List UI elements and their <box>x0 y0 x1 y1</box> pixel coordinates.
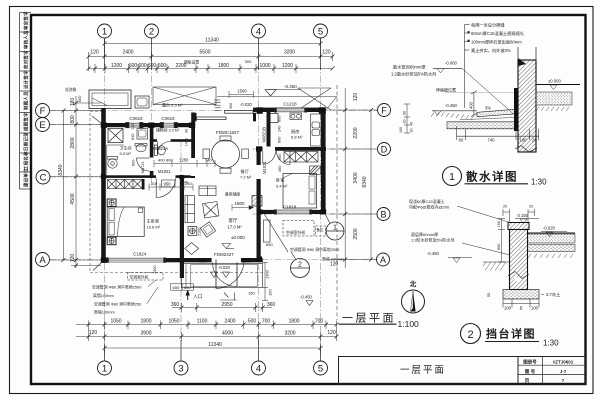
dim 1500 <box>229 91 254 98</box>
bathroom basin <box>135 144 147 152</box>
window C0615 a <box>126 123 143 128</box>
svg-text:55: 55 <box>487 293 491 297</box>
svg-text:20: 20 <box>410 129 414 133</box>
svg-text:5: 5 <box>318 27 323 38</box>
svg-text:C1824: C1824 <box>133 252 147 257</box>
svg-text:5.5 M³: 5.5 M³ <box>120 151 132 156</box>
svg-text:离墙100mm: 离墙100mm <box>93 293 114 298</box>
svg-text:120: 120 <box>131 123 135 129</box>
svg-text:3200: 3200 <box>284 331 295 337</box>
svg-text:审定签字: 审定签字 <box>23 11 30 30</box>
svg-text:F: F <box>381 105 387 115</box>
d1 bottom dims <box>457 126 539 140</box>
svg-text:设计签字: 设计签字 <box>23 70 30 89</box>
svg-text:1: 1 <box>449 171 455 183</box>
svg-text:卫生间: 卫生间 <box>120 145 132 151</box>
d1 apron layers <box>447 109 516 129</box>
wardrobe partition <box>142 179 145 190</box>
svg-text:每隔一米设分隔缝: 每隔一米设分隔缝 <box>471 21 505 28</box>
svg-text:3:7灰土: 3:7灰土 <box>546 291 560 298</box>
svg-text:650: 650 <box>266 242 273 247</box>
entry arrow <box>186 290 203 301</box>
d2 level -0.020 <box>541 226 567 237</box>
svg-text:M0821B: M0821B <box>262 127 267 143</box>
svg-text:±0.000: ±0.000 <box>548 79 561 84</box>
svg-text:40: 40 <box>410 122 414 126</box>
svg-text:20: 20 <box>532 138 537 143</box>
svg-text:600: 600 <box>138 63 147 69</box>
svg-text:客厅: 客厅 <box>229 217 238 224</box>
svg-text:图 号: 图 号 <box>525 368 536 375</box>
walls <box>101 108 326 278</box>
svg-text:310: 310 <box>151 181 158 186</box>
svg-text:600: 600 <box>148 63 157 69</box>
dim line row2 top <box>89 56 333 58</box>
apron edge line kitchen porch <box>217 97 337 111</box>
svg-text:空调管洞 Φ80 洞中离地250: 空调管洞 Φ80 洞中离地250 <box>94 301 142 306</box>
overhang corner diagonals <box>92 116 104 271</box>
d2 level 0.150 <box>515 213 539 224</box>
d1 small left dims <box>404 104 410 133</box>
svg-text:0.150: 0.150 <box>518 213 529 218</box>
axis line C horizontal <box>49 176 186 178</box>
wall D-axis <box>257 147 327 151</box>
svg-text:M0721: M0721 <box>141 161 145 173</box>
axis line 1 vertical <box>104 38 106 361</box>
svg-text:4000: 4000 <box>222 331 233 337</box>
svg-text:100mm厚碎石宽出面60mm: 100mm厚碎石宽出面60mm <box>471 38 522 45</box>
ref bubble 1 <box>325 213 345 241</box>
svg-text:5500: 5500 <box>199 50 210 56</box>
svg-text:一层平面: 一层平面 <box>342 312 396 325</box>
svg-text:空调管洞 Φ80 洞中离地2500: 空调管洞 Φ80 洞中离地2500 <box>290 247 340 252</box>
d1 note texts <box>468 21 524 54</box>
svg-text:1800: 1800 <box>140 319 151 325</box>
svg-text:-0.450: -0.450 <box>284 84 297 89</box>
bedroom2 closet <box>284 152 318 163</box>
svg-text:5: 5 <box>318 364 323 375</box>
dim tick slashes <box>61 42 373 351</box>
svg-text:2100: 2100 <box>198 228 202 236</box>
axis bubble B right <box>377 208 390 221</box>
d2 right slab <box>528 233 576 258</box>
svg-text:60: 60 <box>459 138 464 143</box>
AC box left <box>128 273 164 281</box>
ref bubble 2 <box>291 252 310 278</box>
hall fixture <box>155 145 166 156</box>
right dimension chains <box>330 85 378 320</box>
svg-text:现浇60厚C15混凝土: 现浇60厚C15混凝土 <box>409 198 445 204</box>
svg-text:-0.020: -0.020 <box>218 265 231 270</box>
svg-text:储物间 3.3 M³: 储物间 3.3 M³ <box>156 128 180 133</box>
svg-text:950: 950 <box>278 154 282 160</box>
d1 bottom dim texts <box>459 138 538 143</box>
pier hatch on axis4 wall <box>252 196 262 207</box>
svg-text:-0.020: -0.020 <box>240 102 253 107</box>
entry door arc <box>213 262 238 286</box>
svg-text:3%: 3% <box>485 106 491 111</box>
svg-text:卧室: 卧室 <box>276 177 284 184</box>
svg-text:-0.450: -0.450 <box>427 251 440 256</box>
svg-text:离墙 100mm: 离墙 100mm <box>322 257 344 262</box>
svg-text:#ZTJ0601: #ZTJ0601 <box>553 360 574 365</box>
kitchen sink counter <box>311 114 322 146</box>
bathroom shower <box>108 129 123 143</box>
svg-text:FDMC1827: FDMC1827 <box>216 130 240 135</box>
axis bubble 3 bottom <box>174 361 188 375</box>
bedroom door M1021 arc <box>156 178 175 197</box>
svg-text:挡台详图: 挡台详图 <box>486 327 536 341</box>
axis line 2 vertical <box>151 38 153 185</box>
svg-text:1100: 1100 <box>197 319 208 325</box>
terrace steps <box>214 100 221 110</box>
plan title <box>339 312 420 330</box>
svg-text:500: 500 <box>248 319 257 325</box>
wall north F-axis <box>253 108 325 112</box>
svg-text:300: 300 <box>245 59 252 64</box>
svg-text:150: 150 <box>268 289 273 296</box>
entry level triangles <box>211 272 218 278</box>
svg-text:2950: 2950 <box>221 302 232 308</box>
hall dim row1 <box>154 160 215 167</box>
svg-text:11340: 11340 <box>205 38 219 44</box>
svg-text:8340: 8340 <box>58 164 64 175</box>
svg-text:1800: 1800 <box>288 319 299 325</box>
axis line A horizontal <box>49 259 378 261</box>
d2 mid notes <box>411 231 454 243</box>
svg-text:1280: 1280 <box>179 158 189 163</box>
svg-text:800: 800 <box>70 115 76 124</box>
svg-text:搁板设置: 搁板设置 <box>184 60 199 65</box>
svg-text:素土夯实，向外坡3%: 素土夯实，向外坡3% <box>471 47 511 54</box>
right dim line outer 8340 <box>370 110 372 260</box>
svg-text:4500: 4500 <box>70 193 76 204</box>
bathroom toilet <box>107 145 124 174</box>
svg-text:100: 100 <box>504 306 512 311</box>
svg-text:1800: 1800 <box>218 63 229 69</box>
svg-text:4: 4 <box>256 364 261 375</box>
svg-text:M1021: M1021 <box>158 169 171 174</box>
wall south A-axis <box>101 258 212 262</box>
wall living south <box>241 258 263 262</box>
level -0.450 bottom <box>306 301 313 306</box>
terrace flower bed <box>89 90 131 109</box>
svg-text:M1021: M1021 <box>262 161 267 174</box>
d2 wall break <box>512 273 522 280</box>
coffee table X <box>203 202 219 218</box>
svg-text:300: 300 <box>229 103 233 109</box>
svg-text:1050: 1050 <box>110 319 121 325</box>
svg-text:7.2 M³: 7.2 M³ <box>240 175 252 180</box>
column blobs <box>101 107 326 263</box>
svg-text:C0615: C0615 <box>129 116 143 121</box>
svg-text:空调室外机: 空调室外机 <box>286 230 306 235</box>
svg-text:1: 1 <box>333 225 337 232</box>
wall axis4 vertical <box>257 151 261 262</box>
d1 floor slab right <box>536 85 580 112</box>
kitchen stove <box>290 113 302 120</box>
entry diamond <box>185 243 199 255</box>
svg-text:图册号: 图册号 <box>523 359 537 366</box>
svg-text:-0.020: -0.020 <box>543 226 556 231</box>
svg-text:B: B <box>520 306 523 311</box>
bedroom2 hatched cabinet <box>310 166 321 175</box>
svg-text:1300: 1300 <box>265 269 270 279</box>
d1 wall hatched <box>514 47 536 152</box>
svg-text:3400: 3400 <box>353 172 359 183</box>
svg-text:北: 北 <box>410 279 417 288</box>
d1 label <box>443 167 548 187</box>
bedroom2 door arc <box>277 151 291 165</box>
washer box <box>135 96 149 108</box>
d2 label <box>461 324 560 348</box>
svg-text:400: 400 <box>158 158 165 163</box>
svg-text:100: 100 <box>399 127 403 133</box>
master bed nightstand top <box>107 199 116 207</box>
axis bubble 5 top <box>314 24 328 38</box>
window C1818 <box>275 210 312 214</box>
svg-text:-0.450: -0.450 <box>300 295 313 300</box>
svg-text:2200: 2200 <box>353 127 359 138</box>
svg-text:5.8 M³: 5.8 M³ <box>291 135 303 140</box>
d2 bottom dims <box>503 300 539 308</box>
dim line total 11340 top <box>105 43 321 45</box>
svg-text:1: 1 <box>102 27 107 38</box>
wall axis2 vertical <box>150 123 154 178</box>
title bar texts <box>400 359 574 385</box>
svg-text:F: F <box>40 106 46 117</box>
wall kitchen partition <box>267 108 271 147</box>
svg-text:空调室外机: 空调室外机 <box>130 274 149 279</box>
svg-text:11340: 11340 <box>208 342 222 348</box>
living sofa left <box>185 196 195 223</box>
svg-text:650: 650 <box>173 285 180 290</box>
svg-text:30: 30 <box>185 129 189 133</box>
svg-text:E: E <box>39 120 45 131</box>
door gaps (white) <box>149 139 275 263</box>
svg-text:1420: 1420 <box>185 138 189 146</box>
axis bubble F right <box>378 104 391 117</box>
axis line F horizontal <box>49 110 378 112</box>
d2 footing <box>487 290 560 300</box>
svg-text:15.6 M³: 15.6 M³ <box>147 225 161 230</box>
bottom title bar <box>339 357 586 385</box>
axis bubble F left <box>36 104 50 118</box>
svg-text:60: 60 <box>403 111 407 115</box>
wall axis3 vertical <box>191 113 195 179</box>
svg-text:100: 100 <box>531 306 539 311</box>
axis line 5 vertical <box>320 38 322 361</box>
svg-text:C1818: C1818 <box>283 205 297 210</box>
d1 level 0.000 <box>548 79 561 90</box>
d1 level -0.060 <box>433 61 462 73</box>
svg-text:2: 2 <box>467 329 473 341</box>
bottom dimension chains <box>76 303 337 353</box>
bathroom door arc <box>137 158 150 171</box>
door FDM2427 with arc <box>216 260 244 289</box>
d1 note leader diagonal <box>462 68 514 114</box>
bedroom2 bed <box>283 174 317 209</box>
svg-text:150: 150 <box>248 291 255 296</box>
svg-text:3: 3 <box>178 364 183 375</box>
door FDMC1827 sliding <box>194 111 257 122</box>
wall C-axis <box>101 175 195 178</box>
axis line 3 vertical <box>180 140 182 361</box>
svg-text:600: 600 <box>78 96 82 102</box>
svg-text:A: A <box>39 255 46 266</box>
svg-text:600: 600 <box>278 137 282 143</box>
svg-text:±0.000: ±0.000 <box>231 235 245 240</box>
svg-text:入口: 入口 <box>193 294 203 300</box>
d2 ground left <box>483 262 510 271</box>
svg-text:审核人员: 审核人员 <box>23 30 30 49</box>
svg-text:1: 1 <box>102 364 107 375</box>
svg-text:1:30: 1:30 <box>543 339 559 348</box>
d2 mid leader <box>462 243 510 255</box>
left dimension chains <box>50 96 102 268</box>
top axis circles <box>98 24 328 38</box>
master bed <box>107 207 144 237</box>
svg-text:2400: 2400 <box>224 319 235 325</box>
svg-text:240: 240 <box>182 181 188 185</box>
svg-text:日期记录: 日期记录 <box>23 132 30 151</box>
bottom dimension texts <box>89 302 336 348</box>
axis bubble A left <box>36 253 50 267</box>
svg-text:1:100: 1:100 <box>398 319 420 329</box>
svg-text:离墙100mm: 离墙100mm <box>94 309 115 314</box>
svg-text:校对签字: 校对签字 <box>23 50 30 69</box>
svg-text:1050: 1050 <box>168 319 179 325</box>
d1 wall break <box>515 146 537 153</box>
svg-text:制图人员: 制图人员 <box>23 91 30 110</box>
axis bubble 1 top <box>98 24 112 38</box>
roof overhang dashed outline <box>90 112 263 273</box>
svg-text:20: 20 <box>529 205 533 209</box>
wall B-axis <box>257 210 327 214</box>
wall storage south <box>150 139 195 142</box>
small dims entry <box>171 284 183 290</box>
svg-text:740: 740 <box>488 138 496 143</box>
svg-text:描图签字: 描图签字 <box>23 112 30 132</box>
d1 ground hatch left <box>431 113 474 120</box>
svg-text:120: 120 <box>327 330 336 336</box>
svg-text:1800: 1800 <box>235 201 246 206</box>
svg-text:1000: 1000 <box>259 63 270 69</box>
d2 level -0.450 <box>427 251 472 263</box>
svg-text:20: 20 <box>403 120 407 124</box>
svg-text:1:30: 1:30 <box>531 178 547 187</box>
svg-text:C1218: C1218 <box>283 102 297 107</box>
d2 top notes <box>409 198 450 210</box>
dim line entry 2950 <box>172 307 272 309</box>
svg-text:800: 800 <box>132 160 136 166</box>
top dimension texts <box>90 38 331 70</box>
svg-text:120: 120 <box>353 93 359 102</box>
axis bubble 4 bottom <box>252 361 266 375</box>
svg-text:20: 20 <box>503 205 507 209</box>
wall bedroom-living vertical <box>180 175 184 278</box>
d2 wall <box>510 230 528 290</box>
svg-text:950: 950 <box>164 181 172 186</box>
svg-text:D: D <box>381 144 388 154</box>
axis bubble D right <box>378 143 391 156</box>
svg-text:1:2散水砂浆加5%防水剂: 1:2散水砂浆加5%防水剂 <box>391 71 436 78</box>
bottom axis circles <box>98 361 328 375</box>
d1 level -0.450 <box>432 103 477 115</box>
level mark -0.450 top <box>265 84 301 96</box>
svg-text:备注: 备注 <box>317 227 324 232</box>
right terrace cross <box>298 88 331 110</box>
svg-text:2500: 2500 <box>353 228 359 239</box>
svg-text:1200: 1200 <box>282 63 293 69</box>
svg-text:FDM2427: FDM2427 <box>214 252 234 257</box>
svg-text:2400: 2400 <box>122 50 133 56</box>
svg-text:8340: 8340 <box>362 176 368 187</box>
right dim line inner <box>344 88 346 268</box>
entry platform <box>182 264 263 288</box>
svg-text:M0821A: M0821A <box>153 146 169 151</box>
axis bubble 1 bottom <box>98 361 112 375</box>
window C1218 <box>275 108 307 112</box>
dining table <box>203 136 248 173</box>
svg-text:散水宽同60mm厚: 散水宽同60mm厚 <box>393 64 426 71</box>
svg-text:J-7: J-7 <box>560 369 567 374</box>
right dashed boundary line <box>336 85 338 320</box>
svg-text:主卧室: 主卧室 <box>147 218 160 225</box>
axis bubble 4 top <box>252 24 266 38</box>
axis bubble 2 top <box>145 24 159 38</box>
svg-text:640: 640 <box>131 134 135 140</box>
kitchen door arc <box>263 151 276 164</box>
axis bubble C left <box>36 170 50 184</box>
svg-text:空调管洞 Φ80 洞中离地2500: 空调管洞 Φ80 洞中离地2500 <box>92 285 142 290</box>
right axis circles <box>377 104 391 267</box>
svg-text:150: 150 <box>497 221 501 227</box>
axis line B horizontal <box>252 213 378 215</box>
left dim line outer 8340 <box>62 111 64 261</box>
dim line row3 top <box>89 68 333 70</box>
svg-text:600: 600 <box>497 244 501 250</box>
master wardrobe X row <box>108 180 143 189</box>
svg-text:页: 页 <box>525 377 530 384</box>
svg-text:-0.060: -0.060 <box>445 61 458 66</box>
svg-text:2800: 2800 <box>70 137 76 148</box>
svg-text:800: 800 <box>166 158 173 163</box>
svg-text:360: 360 <box>171 302 180 308</box>
svg-text:3900: 3900 <box>140 331 151 337</box>
svg-text:120: 120 <box>90 50 99 56</box>
svg-text:花池角: 花池角 <box>65 87 77 92</box>
svg-text:C: C <box>40 173 47 184</box>
axis circle stems <box>105 38 321 361</box>
svg-text:-0.450: -0.450 <box>445 103 458 108</box>
axis line 4 vertical <box>258 38 260 361</box>
svg-text:1:2防水砂浆加5%防水剂: 1:2防水砂浆加5%防水剂 <box>411 237 454 243</box>
entry right vertical dims <box>262 262 268 300</box>
svg-text:C0615: C0615 <box>161 116 175 121</box>
side table circle-cross <box>188 227 197 236</box>
svg-text:60mm厚C15混凝土随捣随光: 60mm厚C15混凝土随捣随光 <box>471 30 524 37</box>
left title strip <box>20 13 32 190</box>
svg-text:120: 120 <box>330 262 339 268</box>
dim line bottom row2 <box>76 336 337 338</box>
svg-text:180: 180 <box>520 138 528 143</box>
wall west <box>101 108 106 262</box>
svg-text:120: 120 <box>322 50 331 56</box>
svg-text:400: 400 <box>468 101 473 109</box>
window C1824 <box>107 258 166 262</box>
svg-text:650: 650 <box>184 285 191 290</box>
